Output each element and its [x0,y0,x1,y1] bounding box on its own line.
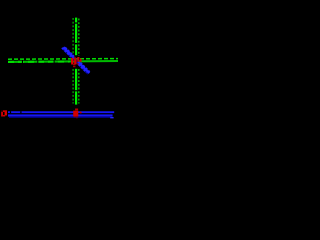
net endpoint cue bright right block [5,112,7,115]
junction marker right bar [80,58,82,61]
junction marker middle column [74,58,77,64]
junction marker right column [77,57,79,62]
net endpoint cue black bottom-right corner [5,115,7,116]
diagonal net wire (dashed flank lower-left, lower run) [78,64,86,72]
diagonal net wire (solid core, upper segment) [63,47,74,58]
bottom bus upper line [8,111,114,113]
bottom bus end selection dash [110,117,113,119]
net endpoint cue black top-left corner [1,110,3,111]
horizontal bus core notch 2 [37,60,38,63]
net endpoint cue (red ring) at left end of bottom bus [1,110,7,116]
bus endpoint marker upper bar [75,109,78,111]
junction marker left bar [71,58,73,65]
bottom bus upper line dash notch 1 [10,111,11,113]
horizontal bus (dashed selection flank, top) [8,58,118,61]
bus endpoint marker lower dot 1 [74,116,75,117]
diagonal net wire (dim under-band) [63,48,89,74]
diagonal net wire (dashed flank upper-right, upper run) [65,47,74,56]
vertical bus (solid core, upper segment) [75,18,77,56]
vertical bus (dashed selection flank, left, upper run) [72,18,74,56]
bus endpoint marker (red block) below vertical bus [73,111,78,117]
diagonal net wire (solid core, lower segment) [78,62,89,73]
vertical bus (dashed selection flank, right, lower run) [78,69,80,104]
junction marker bottom dash 1 [73,64,75,65]
vertical bus core notch 3 [75,90,78,91]
vertical bus (dashed selection flank, right, upper run) [78,19,80,57]
horizontal bus bright dashes on core [8,60,70,63]
background [0,0,128,128]
vertical bus core notch 1 [75,22,78,23]
junction marker bottom dash 2 [73,66,75,67]
horizontal bus core notch 1 [22,61,23,64]
net endpoint cue black hole [3,112,5,115]
junction dot (red) on bottom bus [80,112,82,114]
diagonal net wire (dashed flank upper-right, lower run) [81,63,90,72]
junction marker top dim dash [74,57,76,58]
junction marker bottom mid dot [77,63,78,64]
vertical bus (dashed selection flank, left, lower run) [72,69,74,104]
diagonal net wire (dashed flank lower-left, upper run) [62,48,71,57]
bottom bus upper line dash notch 2 [20,111,21,113]
bottom bus lower line [8,114,113,116]
vertical bus (solid core, lower segment) [75,69,77,105]
horizontal bus core notch 3 [54,60,55,63]
vertical bus core notch 2 [75,43,78,45]
bottom bus lower line glow [9,116,112,118]
horizontal bus (solid core) [8,60,118,63]
bus endpoint marker lower dot 2 [76,117,77,118]
